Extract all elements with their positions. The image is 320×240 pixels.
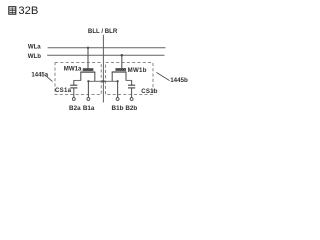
wire: MW1a drain to bit line <box>88 80 103 82</box>
svg-text:1445a: 1445a <box>31 72 48 78</box>
svg-text:MW1b: MW1b <box>128 67 147 74</box>
terminal B2a (open circle) <box>72 98 75 101</box>
svg-text:WLb: WLb <box>28 53 41 60</box>
wire: MW1b source to capacitor CS1b <box>126 79 132 81</box>
MW1a source leg (left) <box>80 72 82 80</box>
wire: MW1a source to capacitor CS1a <box>74 79 81 81</box>
svg-text:B2a: B2a <box>69 105 81 112</box>
MW1b gate (hatched) <box>116 68 126 70</box>
MW1a gate (hatched) <box>83 68 93 71</box>
cell box 1445a (dashed) <box>55 63 101 95</box>
wire: word line WLa <box>48 47 166 49</box>
transistor MW1a <box>80 47 95 82</box>
figure title 圖 32B <box>9 5 39 17</box>
junction dot node B1b branch <box>116 80 118 82</box>
junction dot on WLb <box>121 54 124 57</box>
CS1b top plate <box>128 84 135 86</box>
svg-text:B2b: B2b <box>125 105 137 112</box>
cell box 1445b (dashed) <box>106 63 153 95</box>
wire: down to terminal B1a <box>87 81 89 97</box>
terminal B1b (open circle) <box>116 98 119 101</box>
junction dot on WLa <box>87 47 89 49</box>
MW1a drain leg (right) <box>94 72 96 81</box>
capacitor CS1b <box>128 80 135 98</box>
transistor MW1b <box>112 54 127 81</box>
MW1b source leg (right) <box>125 72 127 80</box>
svg-text:CS1b: CS1b <box>141 88 158 95</box>
junction dot node B1a branch <box>87 80 89 82</box>
MW1b channel <box>112 71 127 73</box>
svg-text:32B: 32B <box>18 5 38 17</box>
CS1a bottom lead <box>73 88 75 98</box>
terminal B1a (open circle) <box>87 98 90 101</box>
svg-text:1445b: 1445b <box>170 77 188 84</box>
CS1b bottom lead <box>131 88 133 98</box>
terminal B2b (open circle) <box>130 98 133 101</box>
svg-text:CS1a: CS1a <box>55 87 72 94</box>
svg-text:WLa: WLa <box>28 43 41 50</box>
capacitor CS1a <box>70 80 77 98</box>
wire: bit line to MW1b drain <box>103 80 117 82</box>
leader line for 1445b <box>156 72 169 80</box>
svg-text:B1a: B1a <box>83 105 95 112</box>
MW1a channel <box>80 71 95 73</box>
junction dot at bit line <box>102 80 105 83</box>
CS1b bottom plate <box>128 87 135 89</box>
svg-text:B1b: B1b <box>112 105 124 112</box>
wire: MW1b gate to WLb <box>121 55 123 68</box>
wire: bit line BLL/BLR vertical <box>102 35 104 103</box>
wire: MW1a gate to WLa <box>87 48 89 69</box>
svg-text:BLL / BLR: BLL / BLR <box>88 28 118 35</box>
CS1b top lead <box>131 80 133 85</box>
wire: word line WLb <box>47 54 164 56</box>
CS1a bottom plate <box>70 87 77 89</box>
CS1a top plate <box>70 84 77 86</box>
CS1a top lead <box>73 80 75 85</box>
MW1b drain leg (left) <box>111 72 113 81</box>
wire: down to terminal B1b <box>117 81 119 97</box>
leader line for 1445a <box>46 76 53 82</box>
svg-text:MW1a: MW1a <box>64 65 82 72</box>
